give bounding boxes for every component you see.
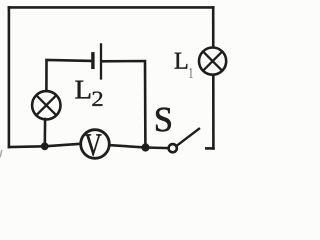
- label L2: subscript 2: [92, 92, 102, 106]
- wire left: [8, 7, 11, 147]
- node junction right (dot): [141, 143, 149, 151]
- wire top: [9, 6, 213, 9]
- wire bottom left segment: [9, 144, 81, 147]
- label L1: letter L: [175, 53, 188, 69]
- switch S blade: [177, 129, 199, 146]
- wire battery right: [102, 61, 145, 148]
- voltmeter V (circle): [81, 130, 110, 159]
- battery cell: short thick plate: [91, 54, 94, 68]
- wire battery left: [46, 60, 91, 92]
- lamp L2: [32, 91, 60, 119]
- wire bottom right segment: [110, 145, 168, 148]
- switch S pivot (open circle): [169, 144, 177, 152]
- battery cell: long thin plate: [100, 44, 102, 78]
- label S (switch): [156, 108, 171, 132]
- lamp L1: [199, 48, 226, 75]
- label V (meter letter): [85, 134, 102, 155]
- label L1: subscript 1: [189, 68, 192, 78]
- node junction left (dot): [41, 142, 49, 150]
- wire L2 bottom: [43, 119, 46, 146]
- label L2: letter L: [75, 81, 90, 99]
- switch fixed contact foot: [206, 147, 213, 150]
- wire right (L1 branch): [212, 7, 215, 148]
- scan smudge bottom-left edge: [0, 150, 2, 158]
